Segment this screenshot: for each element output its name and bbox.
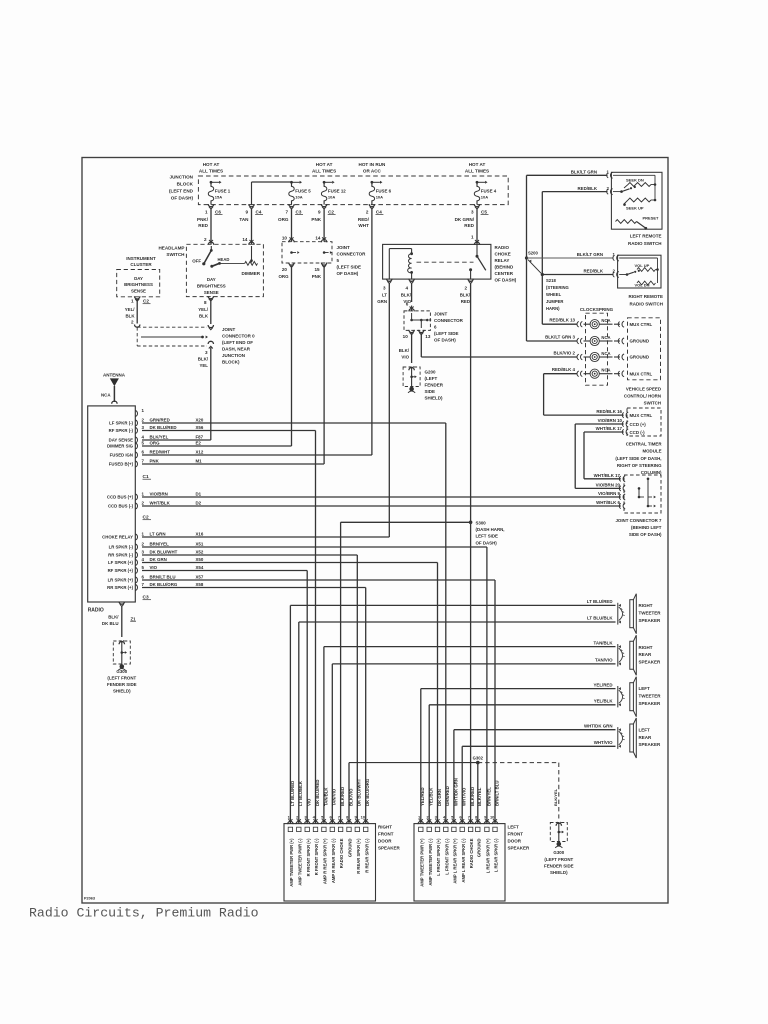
svg-text:CCD (-): CCD (-) [630, 430, 646, 435]
RIGHT REAR SPEAKER icon [619, 645, 621, 648]
svg-text:C3: C3 [296, 209, 302, 214]
svg-text:7: 7 [285, 209, 288, 214]
svg-text:SPEAKER: SPEAKER [639, 701, 662, 706]
svg-text:TAN/BLK: TAN/BLK [594, 640, 614, 645]
svg-text:RED/BLK 13: RED/BLK 13 [549, 318, 575, 323]
svg-text:WHT/BLK 17: WHT/BLK 17 [596, 426, 623, 431]
svg-text:FUSE 6: FUSE 6 [376, 189, 392, 194]
relay switch [476, 244, 478, 256]
svg-text:20: 20 [282, 267, 288, 272]
svg-text:SWITCH: SWITCH [166, 252, 185, 257]
svg-text:CONNECTOR: CONNECTOR [337, 252, 367, 257]
svg-text:10A: 10A [328, 195, 335, 200]
svg-text:BLOCK: BLOCK [177, 182, 194, 187]
svg-text:(LEFT: (LEFT [425, 376, 438, 381]
ground G200 [409, 368, 414, 371]
svg-text:L FRONT SPKR (-): L FRONT SPKR (-) [444, 838, 449, 875]
svg-text:VIO: VIO [307, 798, 312, 806]
JC6 pin 13 bottom [419, 330, 424, 333]
svg-text:YEL: YEL [199, 363, 208, 368]
svg-text:CENTRAL TIMER: CENTRAL TIMER [626, 441, 663, 446]
svg-text:BLK: BLK [125, 313, 135, 318]
svg-text:WHEEL: WHEEL [546, 292, 562, 297]
radio pin 1 [135, 411, 137, 417]
svg-text:R REAR SPKR (+): R REAR SPKR (+) [356, 838, 361, 874]
svg-text:ORG: ORG [150, 441, 161, 446]
svg-text:Radio Circuits, Premium Radio: Radio Circuits, Premium Radio [29, 906, 259, 921]
relay pin 3 [387, 279, 392, 282]
svg-text:AMP TWEETER PWR (-): AMP TWEETER PWR (-) [297, 838, 302, 886]
svg-text:BLK/RED: BLK/RED [340, 787, 345, 806]
svg-text:G300: G300 [553, 850, 564, 855]
wire RED/WHT down to radio FUSED IGN [371, 209, 373, 455]
svg-text:LEFT SIDE: LEFT SIDE [476, 534, 499, 539]
svg-text:1: 1 [131, 299, 134, 304]
fusible link dashed to G300 [478, 762, 559, 764]
svg-text:RF SPKR (+): RF SPKR (+) [108, 568, 134, 573]
JC5 internal bus PNK [323, 251, 326, 254]
JC0 internal bus [141, 336, 203, 338]
svg-text:S300: S300 [476, 520, 487, 525]
svg-text:CLOCKSPRING: CLOCKSPRING [580, 307, 614, 312]
wire ORG to joint connector 5 [291, 209, 293, 242]
svg-text:RED: RED [198, 223, 208, 228]
svg-text:CONNECTOR 0: CONNECTOR 0 [222, 333, 255, 338]
svg-text:FRONT: FRONT [508, 831, 524, 836]
svg-text:AMP TWEETER PWR (-): AMP TWEETER PWR (-) [428, 838, 433, 886]
svg-text:ALL TIMES: ALL TIMES [312, 169, 336, 174]
radio pin 5 X54 RF SPKR (+) [135, 568, 137, 574]
svg-text:BLK/YEL: BLK/YEL [477, 787, 482, 806]
svg-text:(LEFT END OF: (LEFT END OF [222, 340, 253, 345]
svg-text:R REAR SPKR (-): R REAR SPKR (-) [364, 838, 369, 873]
wire DK GRN radio to left door pin3 [142, 562, 438, 564]
svg-text:RIGHT OF STEERING: RIGHT OF STEERING [617, 463, 662, 468]
JC0 dashed link to cluster [137, 326, 207, 328]
svg-text:BRN/YEL: BRN/YEL [150, 542, 170, 547]
svg-text:DIMMER SIG: DIMMER SIG [107, 444, 134, 449]
connector pin 1 C6 at J/B bottom [208, 204, 213, 207]
radio pin 4 F87 DAY SENSE [135, 437, 137, 443]
wire col x=371.9 inside J/B [371, 182, 373, 187]
svg-text:LR SPKR (+): LR SPKR (+) [108, 578, 134, 583]
svg-text:PNK: PNK [150, 459, 160, 464]
svg-text:WHT: WHT [358, 223, 369, 228]
svg-text:10: 10 [490, 815, 495, 820]
right remote radio switch box [618, 255, 661, 288]
svg-text:FENDER SIDE: FENDER SIDE [107, 682, 137, 687]
svg-text:TWEETER: TWEETER [639, 694, 662, 699]
svg-text:TAN/BLK: TAN/BLK [323, 787, 328, 806]
svg-text:CLUSTER: CLUSTER [130, 262, 152, 267]
svg-text:ORG: ORG [278, 217, 289, 222]
fuse FUSE 6 (10A) [369, 186, 374, 201]
svg-text:G200: G200 [425, 369, 437, 374]
svg-text:LT BLU/BLK: LT BLU/BLK [587, 616, 613, 621]
svg-text:X50: X50 [196, 557, 204, 562]
svg-text:DK BLU/RED: DK BLU/RED [150, 425, 177, 430]
RIGHT TWEETER SPEAKER icon [619, 604, 621, 607]
JC5 internal bus ORG [290, 251, 293, 254]
left front door speaker box [414, 824, 505, 901]
radio pin 5 E2 DIMMER SIG [135, 443, 137, 449]
svg-text:F87: F87 [196, 435, 204, 440]
svg-text:OFF: OFF [192, 258, 201, 263]
svg-text:DK GRN/: DK GRN/ [455, 217, 475, 222]
wire DK BLU/ORG radio to right door pin10 [142, 587, 366, 589]
svg-text:SPEAKER: SPEAKER [639, 659, 662, 664]
svg-text:WHT/BLK: WHT/BLK [150, 501, 171, 506]
wire BLK/VIO JC6 to G200 [411, 333, 413, 363]
svg-text:BRN/LT BLU: BRN/LT BLU [494, 781, 499, 806]
JC7 internal bus 1 [638, 488, 640, 497]
radio pin 2 X51 LR SPKR (-) [135, 544, 137, 550]
svg-text:VIO/BRN 9: VIO/BRN 9 [598, 491, 621, 496]
svg-text:G300: G300 [116, 669, 127, 674]
svg-text:SPEAKER: SPEAKER [639, 618, 662, 623]
svg-text:AMP L REAR SPKR (+): AMP L REAR SPKR (+) [453, 838, 458, 884]
junction block J/B dashed box [198, 176, 508, 205]
svg-text:FUSED B(+): FUSED B(+) [109, 462, 134, 467]
svg-text:LR SPKR (-): LR SPKR (-) [109, 545, 134, 550]
svg-text:RIGHT: RIGHT [378, 824, 392, 829]
svg-text:GROUND: GROUND [476, 839, 481, 858]
fuse FUSE 12 feed dot and arrow [323, 181, 326, 184]
svg-text:FRONT: FRONT [378, 831, 394, 836]
relay coil [388, 249, 390, 280]
svg-text:AMP R REAR SPKR (-): AMP R REAR SPKR (-) [331, 838, 336, 883]
LEFT REAR SPEAKER icon [619, 728, 621, 731]
svg-text:SPEAKER: SPEAKER [639, 742, 662, 747]
svg-text:SWITCH: SWITCH [644, 401, 661, 406]
svg-text:ALL TIMES: ALL TIMES [199, 169, 223, 174]
svg-text:INSTRUMENT: INSTRUMENT [126, 256, 156, 261]
svg-text:SENSE: SENSE [204, 290, 219, 295]
svg-text:MODULE: MODULE [642, 449, 661, 454]
diagram outer border frame [82, 158, 668, 904]
wire BRN/YEL radio to left door pin9 [142, 546, 487, 548]
wire YEL/BLK from cluster [136, 300, 138, 324]
svg-text:DK BLU/WHT: DK BLU/WHT [150, 550, 178, 555]
wire WHT/BLK CTM to JC7 [584, 431, 624, 433]
svg-text:2: 2 [366, 209, 369, 214]
svg-text:BLK/LT GRN 3: BLK/LT GRN 3 [545, 334, 575, 339]
svg-text:RR SPKR (-): RR SPKR (-) [108, 553, 133, 558]
svg-text:AMP TWEETER PWR (+): AMP TWEETER PWR (+) [289, 838, 294, 887]
svg-text:SHIELD): SHIELD) [550, 870, 568, 875]
svg-text:RED/BLK: RED/BLK [583, 268, 603, 273]
svg-text:YEL/RED: YEL/RED [593, 682, 612, 687]
JC5 pin 15 bottom [321, 263, 326, 266]
svg-text:(BEHIND LEFT: (BEHIND LEFT [631, 525, 662, 530]
svg-text:LF SPKR (-): LF SPKR (-) [109, 421, 133, 426]
radio antenna pin [112, 401, 117, 404]
svg-text:ANTENNA: ANTENNA [103, 372, 126, 377]
svg-text:SIDE: SIDE [425, 389, 436, 394]
connector pin 9 C2 at J/B bottom [321, 204, 326, 207]
svg-text:MUX CTRL: MUX CTRL [630, 322, 653, 327]
svg-text:CCD BUS (-): CCD BUS (-) [108, 504, 134, 509]
svg-text:14: 14 [242, 237, 248, 242]
wire TAN jumper inside J/B [252, 181, 292, 183]
svg-text:15A: 15A [215, 195, 222, 200]
svg-text:FENDER SIDE: FENDER SIDE [544, 863, 574, 868]
svg-text:(DASH HARN,: (DASH HARN, [476, 527, 505, 532]
svg-text:CHOKE: CHOKE [495, 252, 511, 257]
svg-text:HEADLAMP: HEADLAMP [158, 245, 184, 250]
svg-text:RED/: RED/ [358, 217, 370, 222]
JC5 pin 20 bottom [289, 263, 294, 266]
wire VIO/BRN radio CCD+ to JC7 [142, 496, 621, 498]
svg-text:YEL/BLK: YEL/BLK [429, 787, 434, 806]
svg-text:BRN/LT BLU: BRN/LT BLU [150, 575, 176, 580]
ground G300 below radio [119, 642, 124, 645]
svg-text:PRESET: PRESET [643, 215, 660, 220]
vehicle speed control / horn switch dashed box [628, 318, 661, 380]
svg-text:9: 9 [318, 209, 321, 214]
svg-text:G302: G302 [473, 756, 484, 761]
svg-text:LEFT: LEFT [639, 686, 650, 691]
svg-text:CENTER: CENTER [495, 271, 514, 276]
wire RED/BLK clockspring row4 to CTM [544, 373, 578, 375]
svg-text:HEAD: HEAD [218, 257, 230, 262]
svg-text:L REAR SPKR (+): L REAR SPKR (+) [486, 838, 491, 873]
wire GRN/RED radio to left door pin4 [142, 422, 446, 424]
svg-text:DK BLU/WHT: DK BLU/WHT [357, 778, 362, 806]
svg-text:TAN/VIO: TAN/VIO [595, 658, 613, 663]
svg-text:NCA: NCA [101, 393, 111, 398]
svg-text:BLK/: BLK/ [198, 357, 209, 362]
svg-text:BLK/: BLK/ [401, 293, 412, 298]
svg-text:(LEFT SIDE: (LEFT SIDE [337, 265, 362, 270]
svg-text:HOT AT: HOT AT [469, 162, 486, 167]
svg-text:RADIO SWITCH: RADIO SWITCH [630, 301, 664, 306]
wire LT GRN relay to radio CHOKE RELAY pin [388, 283, 390, 537]
svg-text:DK BLU/RED: DK BLU/RED [315, 780, 320, 807]
svg-text:C2: C2 [143, 299, 149, 304]
svg-text:LT BLU/BLK: LT BLU/BLK [298, 780, 303, 806]
wire BLK/VIO right door pin8 to splice G302 [349, 762, 478, 764]
headlamp sw bottom pin 8 [208, 296, 213, 299]
radio box [88, 406, 136, 602]
svg-text:LT BLU/RED: LT BLU/RED [587, 599, 613, 604]
svg-text:DK BLU: DK BLU [102, 621, 119, 626]
svg-text:X16: X16 [196, 532, 204, 537]
svg-text:RF SPKR (-): RF SPKR (-) [109, 428, 134, 433]
svg-text:GROUND: GROUND [348, 839, 353, 858]
svg-text:FUSED IGN: FUSED IGN [110, 453, 133, 458]
svg-text:HOT AT: HOT AT [203, 162, 220, 167]
svg-text:PNK: PNK [311, 217, 321, 222]
fuse FUSE 12 (10A) [321, 186, 326, 201]
wire DK BLU/WHT radio to right door pin9 [142, 554, 357, 556]
svg-text:GRN/RED: GRN/RED [445, 786, 450, 806]
svg-text:VOL DN: VOL DN [635, 282, 650, 287]
svg-text:OF DASH): OF DASH) [495, 278, 517, 283]
svg-text:WHT/BLK 6: WHT/BLK 6 [596, 500, 620, 505]
svg-text:AMP R REAR SPKR (+): AMP R REAR SPKR (+) [323, 838, 328, 884]
svg-text:1: 1 [205, 209, 208, 214]
svg-text:SPEAKER: SPEAKER [378, 845, 401, 850]
svg-text:AMP L REAR SPKR (-): AMP L REAR SPKR (-) [461, 838, 466, 883]
svg-text:AMP TWEETER PWR (+): AMP TWEETER PWR (+) [419, 838, 424, 887]
left remote pin2 [611, 189, 613, 195]
radio pin 7 M1 FUSED B(+) [135, 461, 137, 467]
svg-text:CCD BUS (+): CCD BUS (+) [107, 495, 134, 500]
svg-text:JOINT CONNECTOR 7: JOINT CONNECTOR 7 [615, 518, 662, 523]
svg-text:BRIGHTNESS: BRIGHTNESS [124, 282, 153, 287]
wire WHT/BLK radio CCD- to JC7 [142, 505, 621, 507]
svg-text:14: 14 [315, 236, 321, 241]
svg-text:BLK/LT GRN: BLK/LT GRN [577, 252, 603, 257]
svg-text:BLK: BLK [199, 313, 209, 318]
svg-text:SEEK UP: SEEK UP [626, 206, 644, 211]
wire col x=291.5 inside J/B [291, 182, 293, 187]
svg-text:S200: S200 [528, 251, 538, 256]
svg-text:RR SPKR (+): RR SPKR (+) [107, 585, 133, 590]
svg-text:10A: 10A [376, 195, 383, 200]
svg-text:LT: LT [382, 293, 387, 298]
radio pin 6 X12 FUSED IGN [135, 452, 137, 458]
svg-text:FUSE 12: FUSE 12 [328, 189, 346, 194]
svg-text:DASH, NEAR: DASH, NEAR [222, 346, 251, 351]
svg-text:DIMMER: DIMMER [241, 271, 260, 276]
svg-text:LEFT REMOTE: LEFT REMOTE [630, 234, 662, 239]
fuse FUSE 5 (10A) [289, 186, 294, 201]
svg-text:OF DASH): OF DASH) [476, 540, 498, 545]
svg-text:DAY: DAY [207, 277, 216, 282]
svg-text:CONNECTOR: CONNECTOR [434, 318, 464, 323]
svg-text:RADIO CHOKE: RADIO CHOKE [339, 838, 344, 868]
fuse FUSE 1 feed dot and arrow [210, 181, 213, 184]
fuse FUSE 6 feed dot and arrow [371, 181, 374, 184]
svg-text:(BEHIND: (BEHIND [495, 265, 514, 270]
svg-text:BLK/: BLK/ [108, 615, 119, 620]
svg-text:VIO: VIO [150, 565, 158, 570]
fuse FUSE 5 feed dot and arrow [290, 181, 293, 184]
JC6 pin 10 bottom [409, 330, 414, 333]
svg-text:CCD (+): CCD (+) [630, 422, 647, 427]
svg-text:10: 10 [361, 815, 366, 820]
svg-text:4: 4 [405, 285, 408, 290]
radio pin 1 D1 CCD BUS (+) [135, 494, 137, 500]
svg-text:JUNCTION: JUNCTION [170, 175, 194, 180]
svg-text:FUSE 5: FUSE 5 [295, 189, 311, 194]
svg-text:RED: RED [464, 223, 474, 228]
svg-text:RADIO: RADIO [495, 245, 510, 250]
svg-text:C5: C5 [481, 209, 487, 214]
svg-text:(LEFT FRONT: (LEFT FRONT [107, 675, 136, 680]
wire BLK/VIO relay pin4 to JC6 [411, 283, 413, 302]
svg-text:NCA: NCA [601, 335, 610, 340]
svg-text:BRIGHTNESS: BRIGHTNESS [197, 283, 226, 288]
svg-text:(LEFT END: (LEFT END [169, 189, 194, 194]
svg-text:CONTROL/ HORN: CONTROL/ HORN [624, 394, 661, 399]
svg-text:DK BLU/ORG: DK BLU/ORG [150, 582, 178, 587]
radio pin 2 X20 LF SPKR (-) [135, 420, 137, 426]
svg-text:S218: S218 [546, 278, 556, 283]
svg-text:LEFT: LEFT [639, 728, 650, 733]
svg-text:D1: D1 [196, 492, 202, 497]
wire PNK/RED fuse1 to headlamp switch [210, 209, 212, 244]
wire BRN/LT BLU radio to left door pin10 [142, 579, 495, 581]
svg-text:X54: X54 [196, 565, 204, 570]
radio pin 7 X58 RR SPKR (+) [135, 585, 137, 591]
svg-text:RED/WHT: RED/WHT [150, 450, 171, 455]
svg-text:YEL/: YEL/ [198, 307, 209, 312]
LEFT TWEETER SPEAKER icon [619, 687, 621, 690]
svg-text:WHT/BLK 17: WHT/BLK 17 [594, 473, 621, 478]
svg-text:REAR: REAR [639, 735, 653, 740]
wire BLK/YEL G302 to left door pin8 [477, 763, 479, 824]
joint connector 6 dashed box [404, 311, 430, 331]
svg-text:DK BLU/ORG: DK BLU/ORG [365, 778, 370, 806]
svg-text:SPEAKER: SPEAKER [508, 845, 531, 850]
splice G302 [476, 761, 480, 765]
svg-text:RADIO: RADIO [88, 608, 104, 614]
relay actuating dashed link [417, 261, 474, 263]
radio pin 3 X52 RR SPKR (-) [135, 552, 137, 558]
wire BLK/RED S300 to left door [470, 522, 472, 823]
svg-text:X58: X58 [196, 582, 204, 587]
svg-text:YEL/BLK: YEL/BLK [594, 699, 614, 704]
svg-text:C4: C4 [256, 209, 262, 214]
svg-text:(LEFT FRONT: (LEFT FRONT [544, 857, 573, 862]
svg-text:ALL TIMES: ALL TIMES [465, 169, 489, 174]
svg-text:BLK/LT GRN: BLK/LT GRN [571, 170, 597, 175]
svg-text:10: 10 [282, 236, 288, 241]
svg-text:PNK/: PNK/ [197, 217, 209, 222]
JC6 internal bus [411, 306, 413, 311]
svg-text:TAN: TAN [239, 217, 249, 222]
svg-text:BLK/VIO 2: BLK/VIO 2 [554, 350, 576, 355]
svg-text:2: 2 [464, 285, 467, 290]
svg-text:DAY SENSE: DAY SENSE [109, 438, 133, 443]
svg-text:6: 6 [406, 302, 409, 307]
svg-text:SHIELD): SHIELD) [113, 689, 131, 694]
svg-text:VIO/BRN 10: VIO/BRN 10 [598, 418, 623, 423]
svg-text:LT GRN: LT GRN [150, 532, 166, 537]
svg-text:JUNCTION: JUNCTION [222, 353, 245, 358]
svg-text:VIO: VIO [401, 354, 409, 359]
svg-text:X20: X20 [196, 418, 204, 423]
radio pin 4 X50 LF SPKR (+) [135, 560, 137, 566]
relay pin 2 [468, 279, 473, 282]
JC7 internal bus 2 [647, 479, 649, 506]
svg-text:MUX CTRL: MUX CTRL [630, 413, 653, 418]
joint connector 5 dashed box [282, 242, 332, 263]
svg-text:15: 15 [314, 267, 320, 272]
svg-text:VIO/BRN: VIO/BRN [150, 492, 168, 497]
svg-text:DOOR: DOOR [508, 838, 522, 843]
joint connector 0 pin 1 [208, 325, 213, 328]
headlamp switch dashed box [186, 244, 263, 296]
svg-text:OF DASH): OF DASH) [434, 337, 456, 342]
svg-text:WHT/VIO: WHT/VIO [462, 787, 467, 806]
svg-text:M1: M1 [196, 459, 203, 464]
fuse FUSE 4 (10A) [474, 186, 479, 201]
svg-text:BLK/YEL: BLK/YEL [150, 435, 169, 440]
svg-text:8: 8 [204, 300, 207, 305]
svg-text:(LEFT SIDE OF DASH,: (LEFT SIDE OF DASH, [615, 456, 661, 461]
wire BLK/VIO JC6 pin13 to clockspring [420, 333, 422, 357]
wire col x=477.0 inside J/B [476, 182, 478, 187]
relay pin 4 [409, 279, 414, 282]
right front door speaker box [284, 824, 376, 901]
svg-text:DK GRN: DK GRN [150, 557, 167, 562]
svg-text:X51: X51 [196, 542, 204, 547]
svg-text:BLK/RED: BLK/RED [470, 787, 475, 806]
